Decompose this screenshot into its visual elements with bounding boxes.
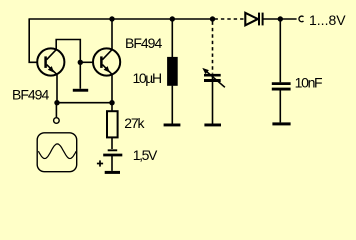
svg-text:10nF: 10nF xyxy=(295,75,322,91)
svg-text:BF494: BF494 xyxy=(125,35,162,51)
svg-text:27k: 27k xyxy=(124,115,145,131)
svg-text:1...8V: 1...8V xyxy=(309,12,346,28)
svg-text:1,5V: 1,5V xyxy=(133,147,158,163)
svg-text:10µH: 10µH xyxy=(133,70,161,86)
svg-text:BF494: BF494 xyxy=(12,87,49,103)
